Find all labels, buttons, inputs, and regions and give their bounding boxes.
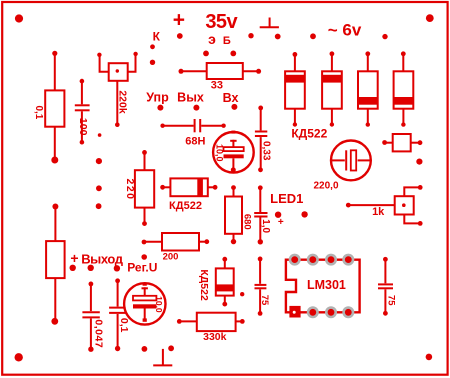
svg-text:33: 33: [211, 79, 223, 91]
trimmer 220k: [97, 52, 138, 127]
net label +Vyhod: [70, 250, 124, 271]
resistor 330k: [177, 313, 245, 343]
svg-text:10,0: 10,0: [154, 296, 164, 313]
capacitor 220,0 (electrolytic): [313, 141, 370, 192]
mounting hole top-right: [426, 14, 434, 22]
op-amp U1 LM301: [286, 254, 360, 319]
capacitor 0,047: [82, 282, 104, 352]
resistor 200: [142, 233, 210, 262]
resistor (output, unlabeled): [46, 204, 65, 325]
capacitor 0,33: [255, 106, 272, 173]
capacitor 100: [75, 79, 90, 145]
pad ~6v: [382, 34, 387, 39]
svg-text:+: +: [70, 250, 78, 266]
pad (floating, right): [416, 159, 422, 165]
svg-text:1,0: 1,0: [260, 219, 271, 233]
diode VD2 KD522: [322, 51, 342, 126]
capacitor 75 (left): [255, 257, 270, 316]
svg-text:330k: 330k: [203, 331, 227, 343]
ground (bottom): [142, 345, 175, 365]
pad right of ground: [310, 33, 316, 39]
svg-text:0,047: 0,047: [92, 319, 104, 348]
svg-text:КД522: КД522: [291, 126, 327, 140]
svg-text:220,0: 220,0: [313, 180, 338, 191]
svg-text:35v: 35v: [205, 11, 238, 33]
svg-text:0,1: 0,1: [118, 318, 130, 333]
node Vh: [223, 91, 239, 110]
svg-text:75: 75: [259, 295, 270, 306]
diode VD3 KD522: [358, 51, 378, 126]
svg-text:200: 200: [163, 251, 179, 262]
mounting hole bottom-right: [426, 354, 433, 361]
ground (top): [260, 18, 279, 28]
diode VD6 KD522 (vertical): [198, 257, 234, 307]
svg-text:10,0: 10,0: [215, 144, 225, 162]
node K (transistor collector): [150, 30, 161, 66]
svg-text:220k: 220k: [117, 90, 129, 114]
pad right of B: [248, 33, 253, 38]
diode VD4 KD522: [394, 51, 414, 126]
svg-text:КД522: КД522: [169, 200, 202, 212]
diode VD5 KD522 (horizontal): [160, 178, 217, 211]
diode VD1 KD522: [285, 52, 305, 127]
svg-text:Рег.U: Рег.U: [127, 260, 157, 274]
resistor 680: [225, 185, 252, 244]
node E (transistor emitter): [203, 31, 216, 56]
svg-text:Выход: Выход: [81, 251, 124, 266]
svg-text:1k: 1k: [372, 206, 385, 218]
capacitor 10,0 (upper electrolytic): [213, 131, 254, 173]
svg-text:Вх: Вх: [223, 91, 239, 105]
svg-text:К: К: [153, 30, 161, 44]
node B (transistor base): [223, 35, 236, 57]
capacitor 1,0: [254, 185, 271, 244]
svg-text:+: +: [278, 217, 284, 228]
resistor 33: [179, 63, 262, 91]
capacitor 75 (right): [378, 257, 396, 316]
svg-text:0,33: 0,33: [261, 141, 272, 161]
resistor 1k: [346, 185, 423, 226]
pad (near VD6): [240, 292, 244, 296]
mounting hole top-left: [15, 14, 23, 22]
svg-text:0,1: 0,1: [33, 105, 44, 119]
inductor 68H: [160, 119, 225, 147]
pad left of ground: [275, 34, 281, 40]
svg-text:Упр: Упр: [146, 90, 169, 104]
svg-text:75: 75: [385, 295, 396, 306]
svg-text:LED1: LED1: [270, 191, 303, 206]
LED1: [270, 191, 308, 228]
resistor 220: [124, 150, 154, 226]
jumper square (right): [382, 134, 422, 151]
svg-text:Вых: Вых: [177, 90, 204, 104]
svg-text:220: 220: [124, 178, 136, 200]
svg-text:~ 6v: ~ 6v: [328, 21, 362, 40]
mounting hole bottom-left: [15, 353, 23, 361]
pad +35v: [177, 33, 183, 39]
svg-text:э: э: [208, 31, 216, 47]
resistor 0,1 (top left): [33, 51, 64, 164]
svg-text:LM301: LM301: [307, 278, 346, 292]
svg-text:+: +: [173, 9, 185, 32]
node Upr: [146, 90, 169, 110]
svg-text:Б: Б: [223, 35, 231, 47]
svg-text:68H: 68H: [185, 135, 205, 147]
pads left column: [96, 133, 102, 209]
svg-text:680: 680: [241, 214, 252, 230]
svg-text:100: 100: [77, 118, 89, 136]
capacitor 0,1 (bottom): [109, 278, 130, 351]
net label +35v: [173, 9, 239, 34]
svg-text:КД522: КД522: [198, 269, 210, 301]
capacitor 10,0 (lower electrolytic): [124, 283, 165, 325]
node Vyh: [177, 90, 204, 110]
net label Reg.U: [127, 254, 157, 274]
